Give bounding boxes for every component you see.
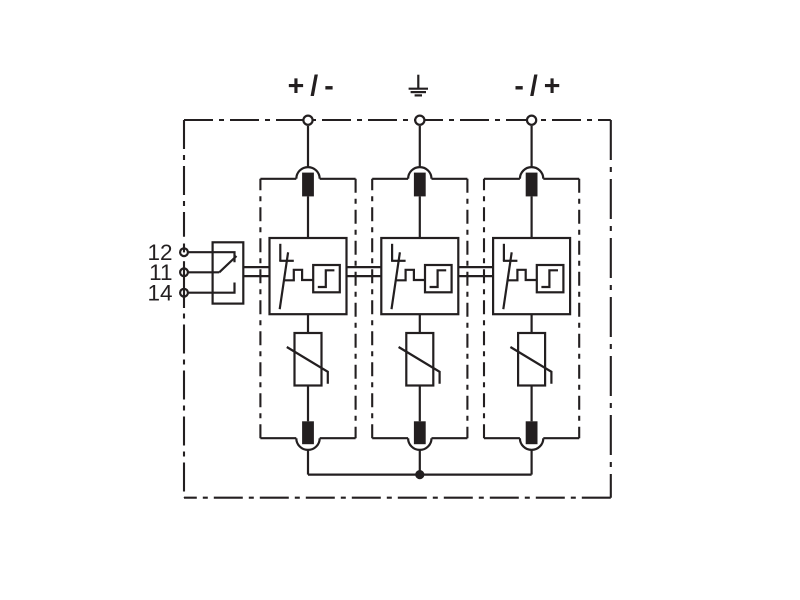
module box 2 (dashed) bottom edge [432, 437, 468, 439]
varistor diagonal stroke channel 3 [510, 347, 551, 384]
bushing arc (bottom) channel 2 [408, 438, 431, 450]
wire: varistor to bottom disconnector channel 3 [530, 386, 532, 422]
wire: varistor to bottom disconnector channel 2 [419, 386, 421, 422]
varistor diagonal stroke channel 2 [399, 347, 440, 384]
trigger circuit box channel 2 [425, 265, 452, 292]
wire: terminal 2 down to disconnector [419, 126, 421, 179]
terminal circle 11 [180, 268, 188, 276]
enclosure outline left edge upper part (dash-dot) [183, 120, 185, 237]
module box 2 (dashed) right edge [466, 179, 468, 438]
module box 2 (dashed) left edge [371, 179, 373, 438]
module box 3 (dashed) bottom edge [543, 437, 579, 439]
spark gap electrode symbol channel 1 [279, 244, 281, 261]
trigger circuit box channel 1 [313, 265, 340, 292]
wire 11 (common) [189, 271, 220, 273]
wire+NO contact 14 [189, 283, 235, 293]
module box 2 (dashed) top edge [372, 178, 408, 180]
wire: disconnector to spark-gap box channel 1 [307, 196, 309, 238]
trigger circuit box channel 3 [537, 265, 564, 292]
varistor diagonal stroke channel 1 [287, 347, 328, 384]
module box 3 (dashed) top edge [484, 178, 520, 180]
switch blade 11-12 [219, 256, 236, 272]
wire: terminal 3 down to disconnector [530, 126, 532, 179]
enclosure outline right edge (dash-dot) [610, 120, 612, 498]
wire: disconnector to spark-gap box channel 3 [530, 196, 532, 238]
contact box K1 [213, 242, 244, 303]
enclosure outline top edge (dash-dot) [184, 119, 611, 121]
thermal disconnector (top black fuse) channel 2 [414, 173, 426, 197]
step symbol in trigger box channel 3 [541, 270, 558, 287]
bushing arc (bottom) channel 1 [296, 438, 319, 450]
wire: spark gap to varistor channel 2 [419, 314, 421, 333]
terminal circle 14 [180, 289, 188, 297]
wire: varistor to bottom disconnector channel 1 [307, 386, 309, 422]
wire: spark gap to varistor channel 1 [307, 314, 309, 333]
svg-text:14: 14 [147, 281, 172, 306]
module box 3 (dashed) right edge [578, 179, 580, 438]
bushing arc (top) channel 3 [520, 167, 543, 179]
wire+NC contact 12 [189, 252, 235, 262]
wire: terminal 1 down to disconnector [307, 126, 309, 179]
triggered spark gap unit U3 (box) [493, 238, 570, 314]
spark gap electrode symbol channel 2 [391, 244, 393, 261]
bushing arc (top) channel 1 [296, 167, 319, 179]
wire: bottom lead to ground bus channel 2 [419, 438, 421, 474]
varistor RV1 (rect) [295, 333, 322, 386]
junction node (bus to earth channel) [415, 470, 424, 479]
terminal circle 12 [180, 248, 188, 256]
enclosure outline left edge lower part (dash-dot) [183, 325, 185, 498]
earth/ground symbol [409, 75, 428, 96]
wire: disconnector to spark-gap box channel 2 [419, 196, 421, 238]
trigger pulse waveform channel 2 [395, 270, 425, 281]
varistor RV3 (rect) [518, 333, 545, 386]
svg-text:+/-: +/- [288, 71, 340, 103]
module box 3 (dashed) left edge [483, 179, 485, 438]
trigger pulse waveform channel 1 [284, 270, 314, 281]
double wire: spark gap 2 to spark gap 3 [458, 266, 493, 268]
step symbol in trigger box channel 2 [430, 270, 447, 287]
module box 1 (dashed) left edge [259, 179, 261, 438]
wire: bottom lead to ground bus channel 1 [307, 438, 309, 474]
wire: spark gap to varistor channel 3 [530, 314, 532, 333]
bushing arc (top) channel 2 [408, 167, 431, 179]
triggered spark gap unit U1 (box) [270, 238, 347, 314]
double wire: spark gap 1 to spark gap 2 [347, 266, 382, 268]
svg-text:-/+: -/+ [514, 71, 566, 103]
thermal disconnector (bottom black fuse) channel 1 [302, 421, 314, 444]
trigger pulse waveform channel 3 [507, 270, 537, 281]
terminal circle 3 [527, 116, 536, 125]
enclosure outline left edge at signal terminals [183, 244, 185, 253]
terminal circle 2 [415, 116, 424, 125]
module box 1 (dashed) top edge [260, 178, 296, 180]
bushing arc (bottom) channel 3 [520, 438, 543, 450]
triggered spark gap unit U2 (box) [381, 238, 458, 314]
thermal disconnector (bottom black fuse) channel 2 [414, 421, 426, 444]
spark gap electrode symbol channel 3 [503, 244, 505, 261]
wire: bottom lead to ground bus channel 3 [530, 438, 532, 474]
module box 1 (dashed) bottom edge [320, 437, 356, 439]
step symbol in trigger box channel 1 [318, 270, 335, 287]
double wire: contact box to spark gap 1 [243, 266, 269, 268]
ground bus wire [308, 474, 532, 476]
enclosure outline bottom edge (dash-dot) [184, 497, 611, 499]
thermal disconnector (top black fuse) channel 1 [302, 173, 314, 197]
varistor RV2 (rect) [406, 333, 433, 386]
thermal disconnector (top black fuse) channel 3 [526, 173, 538, 197]
terminal circle 1 [303, 116, 312, 125]
thermal disconnector (bottom black fuse) channel 3 [526, 421, 538, 444]
module box 1 (dashed) right edge [355, 179, 357, 438]
